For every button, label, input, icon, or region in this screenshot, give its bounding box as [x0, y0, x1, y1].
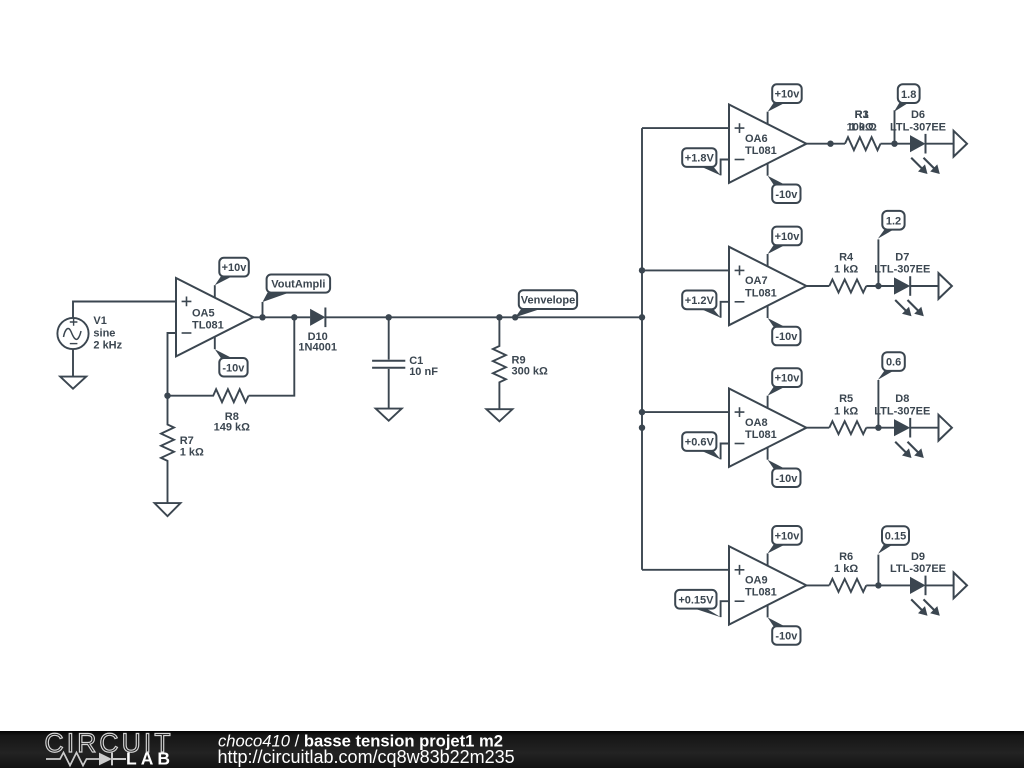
wire bus to OA8 + input [642, 411, 729, 413]
OA5 +10v net flag [215, 258, 249, 285]
svg-text:TL081: TL081 [745, 587, 777, 599]
OA9 +10v net flag [768, 526, 802, 553]
svg-text:LTL-307EE: LTL-307EE [874, 405, 930, 417]
svg-text:R6: R6 [839, 551, 853, 563]
svg-text:LTL-307EE: LTL-307EE [874, 264, 930, 276]
wire junction to value flag [894, 110, 896, 143]
svg-text:+10v: +10v [222, 262, 248, 274]
OA5 +10v power pin stub [214, 285, 216, 298]
op-amp OA6 [729, 105, 806, 183]
diode D10 [310, 308, 325, 328]
wire resistor to junction [866, 285, 894, 287]
output port symbol after D9 [954, 573, 967, 599]
resistor R3 [845, 137, 881, 150]
junction R7/R8 node [164, 393, 170, 399]
wire OA5 - input to feedback node [168, 333, 177, 396]
svg-text:0.6: 0.6 [886, 357, 901, 369]
Venvelope net flag [515, 290, 577, 317]
svg-text:D6: D6 [911, 109, 925, 121]
D7 value label [874, 252, 930, 276]
wire OA8 - input stub [721, 444, 729, 460]
wire resistor to junction [866, 427, 894, 429]
svg-text:OA5: OA5 [192, 308, 215, 320]
OA7 +1.2V net flag [682, 291, 720, 318]
svg-text:149 kΩ: 149 kΩ [214, 421, 251, 433]
wire bus to OA6 + input [642, 127, 729, 129]
R9 value label [512, 354, 549, 377]
D10 value label [298, 331, 337, 354]
svg-text:VoutAmpli: VoutAmpli [271, 279, 325, 291]
op-amp OA8 [729, 389, 806, 467]
svg-text:-10v: -10v [222, 362, 245, 374]
node OA9 junction [875, 582, 881, 588]
svg-text:+10v: +10v [775, 373, 801, 385]
junction feedback node [291, 314, 297, 320]
OA7 +10v net flag [768, 227, 802, 254]
wire bus to OA7 + input [642, 269, 729, 271]
wire bus to OA9 + input [642, 569, 729, 571]
wire OA7 - input stub [721, 302, 729, 318]
OA8 +0.6V net flag [682, 432, 720, 459]
C1 value label [409, 355, 438, 378]
D6 emission arrows [911, 158, 940, 174]
R3 value label [847, 109, 877, 133]
node OA6 junction [891, 141, 897, 147]
output port symbol after D6 [954, 131, 967, 157]
R6 value label [834, 551, 858, 575]
svg-text:C1: C1 [409, 355, 423, 367]
wire D10 to bus [325, 316, 642, 318]
LED D9 [910, 576, 926, 596]
wire junction to value flag [877, 555, 879, 586]
schematic title [218, 732, 503, 751]
OA8 -10v power pin stub [767, 447, 769, 460]
svg-text:TL081: TL081 [745, 287, 777, 299]
resistor R8 [168, 389, 249, 402]
svg-text:V1: V1 [93, 315, 106, 327]
svg-text:-10v: -10v [775, 331, 798, 343]
svg-text:1 kΩ: 1 kΩ [834, 405, 858, 417]
V1 value label [93, 315, 122, 352]
svg-text:+0.6V: +0.6V [685, 437, 715, 449]
wire OA9 output to resistor [806, 584, 829, 586]
svg-text:OA8: OA8 [745, 417, 768, 429]
svg-text:300 kΩ: 300 kΩ [512, 366, 549, 378]
svg-text:1.8: 1.8 [901, 89, 916, 101]
op-amp OA5 [176, 278, 253, 356]
wire V1 top to OA5 + input [73, 302, 176, 318]
svg-text:LAB: LAB [126, 749, 174, 768]
bus vertical wire [641, 128, 643, 570]
wire OA7 output to resistor [806, 285, 829, 287]
resistor R6 [829, 579, 866, 592]
node Venvelope dot [512, 314, 518, 320]
svg-text:+1.2V: +1.2V [685, 295, 715, 307]
schematic url [218, 747, 515, 767]
op-amp OA7 [729, 247, 806, 325]
ground under R7 [155, 503, 181, 516]
R7 value label [180, 435, 204, 459]
OA9 -10v power pin stub [767, 605, 769, 618]
LED D8 [894, 418, 910, 438]
OA8 +10v net flag [768, 368, 802, 395]
svg-text:+10v: +10v [775, 89, 801, 101]
OA7 -10v net flag [768, 318, 801, 345]
svg-text:OA9: OA9 [745, 575, 768, 587]
ground under R9 [486, 409, 512, 421]
resistor R9 [493, 317, 506, 409]
svg-text:2 kHz: 2 kHz [93, 340, 122, 352]
0.6 value net flag [878, 352, 905, 380]
svg-text:LTL-307EE: LTL-307EE [890, 121, 946, 133]
LED D6 [910, 134, 926, 154]
svg-text:Venvelope: Venvelope [521, 295, 575, 307]
wire V1 bottom to ground [72, 349, 74, 377]
svg-text:+1.8V: +1.8V [685, 153, 715, 165]
D6 value label [890, 109, 946, 133]
node bus/main junction [639, 314, 645, 320]
node bus OA8 junction [639, 409, 645, 415]
D8 emission arrows [895, 442, 924, 458]
output port symbol after D8 [939, 415, 952, 441]
svg-text:1 kΩ: 1 kΩ [850, 121, 874, 133]
svg-text:1 kΩ: 1 kΩ [834, 563, 858, 575]
D9 emission arrows [911, 599, 940, 615]
svg-text:D7: D7 [895, 252, 909, 264]
footer bar [0, 731, 1024, 768]
node C1 top [386, 314, 392, 320]
node bus OA7 junction [639, 267, 645, 273]
wire OA6 - input stub [721, 160, 729, 176]
node R9 top [496, 314, 502, 320]
op-amp OA9 [729, 546, 806, 624]
node VoutAmpli dot [259, 314, 265, 320]
svg-text:sine: sine [93, 327, 115, 339]
svg-text:D8: D8 [895, 393, 909, 405]
svg-text:TL081: TL081 [192, 320, 224, 332]
R5 value label [834, 393, 858, 417]
OA6 -10v power pin stub [767, 163, 769, 176]
svg-text:1 kΩ: 1 kΩ [834, 264, 858, 276]
wire OA6 output to resistor [806, 143, 845, 145]
svg-text:R9: R9 [512, 354, 526, 366]
wire LED to port [910, 427, 938, 429]
svg-text:1.2: 1.2 [886, 215, 901, 227]
svg-text:R7: R7 [180, 435, 194, 447]
1.2 value net flag [878, 211, 905, 239]
output port symbol after D7 [939, 273, 952, 299]
resistor R5 [829, 421, 866, 434]
node OA8 junction [875, 425, 881, 431]
svg-text:+10v: +10v [775, 231, 801, 243]
wire junction to value flag [877, 239, 879, 286]
OA9 +10v power pin stub [767, 553, 769, 566]
ground under V1 [60, 377, 86, 389]
D9 value label [890, 551, 946, 575]
0.15 value net flag [878, 526, 909, 554]
node R1/R3 left terminal [827, 141, 833, 147]
OA6 +10v power pin stub [767, 112, 769, 125]
svg-text:10 nF: 10 nF [409, 366, 438, 378]
wire LED to port [926, 584, 954, 586]
1.8 value net flag [894, 84, 920, 112]
ground under C1 [376, 409, 402, 421]
svg-text:D9: D9 [911, 551, 925, 563]
wire resistor to junction [881, 143, 911, 145]
D8 value label [874, 393, 930, 417]
svg-text:-10v: -10v [775, 189, 798, 201]
LED D7 [894, 276, 910, 296]
wire OA8 output to resistor [806, 427, 829, 429]
node OA7 junction [875, 283, 881, 289]
wire resistor to junction [866, 584, 910, 586]
svg-text:TL081: TL081 [745, 145, 777, 157]
svg-text:1N4001: 1N4001 [298, 342, 337, 354]
svg-text:LTL-307EE: LTL-307EE [890, 563, 946, 575]
svg-text:1 kΩ: 1 kΩ [180, 446, 204, 458]
svg-text:R4: R4 [839, 252, 854, 264]
OA7 +10v power pin stub [767, 254, 769, 267]
OA7 -10v power pin stub [767, 305, 769, 318]
svg-text:0.15: 0.15 [885, 531, 906, 543]
OA6 -10v net flag [768, 176, 801, 203]
OA8 +10v power pin stub [767, 396, 769, 409]
resistor R4 [829, 280, 866, 293]
svg-text:TL081: TL081 [745, 429, 777, 441]
svg-text:-10v: -10v [775, 631, 798, 643]
OA6 +10v net flag [768, 84, 802, 111]
voltage source V1 [57, 318, 88, 349]
R8 value label [214, 411, 251, 434]
VoutAmpli net flag [263, 275, 331, 303]
svg-text:OA7: OA7 [745, 275, 768, 287]
node VoutAmpli stub [262, 302, 264, 317]
wire LED to port [926, 143, 954, 145]
OA6 +1.8V net flag [682, 148, 720, 175]
R4 value label [834, 252, 858, 276]
svg-text:R3: R3 [855, 109, 869, 121]
wire OA5 output [253, 316, 310, 318]
OA5 -10v net flag [215, 349, 248, 376]
wire feedback down to R8 [249, 317, 295, 395]
svg-text:+10v: +10v [775, 530, 801, 542]
wire LED to port [910, 285, 938, 287]
OA9 +0.15V net flag [675, 590, 720, 617]
svg-text:R5: R5 [839, 393, 853, 405]
resistor R7 [161, 396, 174, 503]
wire OA9 - input stub [721, 601, 729, 617]
svg-text:+0.15V: +0.15V [678, 594, 714, 606]
svg-text:OA6: OA6 [745, 133, 768, 145]
CircuitLab logo [45, 728, 174, 768]
OA5 -10v power pin stub [214, 337, 216, 350]
OA9 -10v net flag [768, 617, 801, 644]
svg-text:-10v: -10v [775, 473, 798, 485]
wire junction to value flag [877, 380, 879, 428]
OA8 -10v net flag [768, 460, 801, 487]
node bus extra junction [639, 425, 645, 431]
D7 emission arrows [895, 300, 924, 316]
capacitor C1 [372, 317, 405, 408]
svg-text:http://circuitlab.com/cq8w83b2: http://circuitlab.com/cq8w83b22m235 [218, 747, 515, 767]
